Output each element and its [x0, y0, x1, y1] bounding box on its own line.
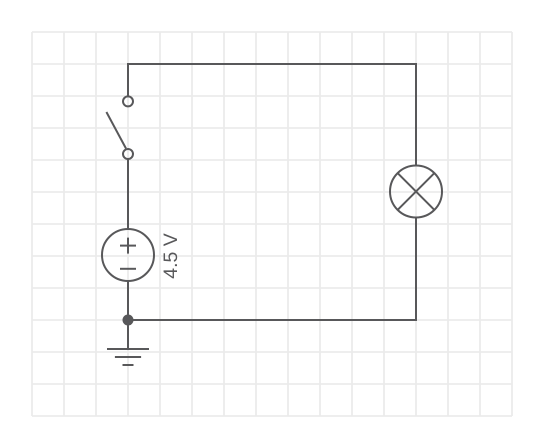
wire: left riser, switch top contact up to top-left corner	[127, 63, 129, 97]
battery minus sign	[120, 268, 136, 270]
lamp (circle with inscribed X)	[390, 166, 442, 218]
battery / voltage source body circle	[102, 229, 154, 281]
wire: right riser lower, lamp down to bottom-right corner	[415, 217, 417, 320]
wire: right riser upper, top-right corner down to lamp	[415, 63, 417, 166]
switch S1 blade (open)	[106, 112, 126, 149]
wire: top side, from (128,64) to (416,64)	[127, 63, 417, 65]
switch S1 bottom contact	[123, 149, 133, 159]
wire: junction node down to ground	[127, 320, 129, 349]
ground symbol	[107, 349, 149, 365]
battery plus sign	[120, 238, 136, 254]
wire: switch bottom contact down to battery	[127, 159, 129, 230]
value label "4.5 V"	[164, 233, 178, 278]
wire: bottom side, junction to bottom-right corner	[128, 319, 417, 321]
wire: battery bottom to junction node	[127, 280, 129, 320]
switch S1 top contact	[123, 96, 133, 106]
junction node dot	[123, 315, 134, 326]
